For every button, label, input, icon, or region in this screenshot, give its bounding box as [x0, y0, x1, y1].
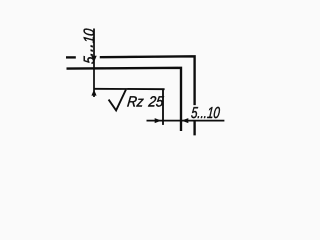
svg-text:Rz 25: Rz 25 [126, 93, 164, 110]
svg-text:5...10: 5...10 [78, 27, 97, 64]
svg-text:5...10: 5...10 [190, 103, 220, 121]
